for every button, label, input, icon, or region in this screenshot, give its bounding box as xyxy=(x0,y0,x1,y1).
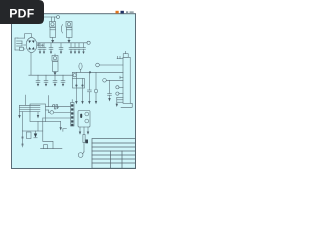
capacitor C3 xyxy=(49,43,53,54)
svg-text:PDF: PDF xyxy=(9,7,34,21)
wire drop leg1 xyxy=(75,86,77,105)
pin stubs U2 xyxy=(116,86,133,108)
page background xyxy=(0,0,149,198)
node plus marks xyxy=(37,44,44,47)
wire net6 xyxy=(43,117,71,119)
connector J2 xyxy=(71,100,75,127)
capacitor C9 xyxy=(44,75,48,86)
fuse F1 xyxy=(50,22,56,44)
toolbar icon marks xyxy=(116,11,134,14)
capacitor C11 xyxy=(61,75,65,86)
capacitor C2 xyxy=(42,43,46,54)
wire bus3 xyxy=(73,72,124,74)
relay K1 xyxy=(73,72,85,88)
IC U1 xyxy=(30,104,46,122)
schematic linework group xyxy=(15,16,136,169)
lamp DS1 xyxy=(79,63,82,72)
capacitor C13 xyxy=(108,80,112,101)
transistor Q1 xyxy=(78,111,90,128)
capacitor C8 xyxy=(82,43,86,54)
capacitor C5 xyxy=(69,43,73,54)
wire net7 xyxy=(46,122,62,131)
connector J1 xyxy=(15,38,25,50)
wire drop leg2 xyxy=(81,79,83,105)
diode D2 chain xyxy=(78,135,88,158)
transformer T1 outline xyxy=(41,118,63,149)
capacitor C12b polarized xyxy=(95,72,98,104)
wire bus2 xyxy=(29,74,76,77)
diode D1 xyxy=(23,122,43,138)
wire bridge-bottom xyxy=(30,53,32,75)
resistor R2 zigzag xyxy=(46,96,71,109)
fuse F3 xyxy=(52,54,58,75)
winding arc L1 xyxy=(61,25,62,34)
wire top terminal xyxy=(44,16,60,22)
capacitor C9a xyxy=(36,75,40,86)
IC U2 xyxy=(117,51,130,103)
fuse F2 xyxy=(66,22,72,44)
capacitor C10 xyxy=(53,75,57,86)
pin comb U1 xyxy=(18,95,40,131)
capacitor C12 xyxy=(87,72,91,104)
wire bus1 xyxy=(38,41,91,44)
wire net4 xyxy=(96,56,123,79)
capacitor C1 xyxy=(38,43,42,54)
capacitor C7 xyxy=(77,43,81,54)
box small B1 xyxy=(22,131,32,147)
wire net5 xyxy=(103,79,123,83)
capacitor C6 xyxy=(73,43,77,54)
PDF badge xyxy=(0,0,44,24)
node corner mark xyxy=(63,129,67,132)
capacitor C4 xyxy=(59,43,63,54)
legs Q1 xyxy=(79,127,89,135)
title block table xyxy=(92,139,136,169)
lamp DS2 xyxy=(46,110,71,114)
bridge rectifier BR1 xyxy=(18,34,40,53)
